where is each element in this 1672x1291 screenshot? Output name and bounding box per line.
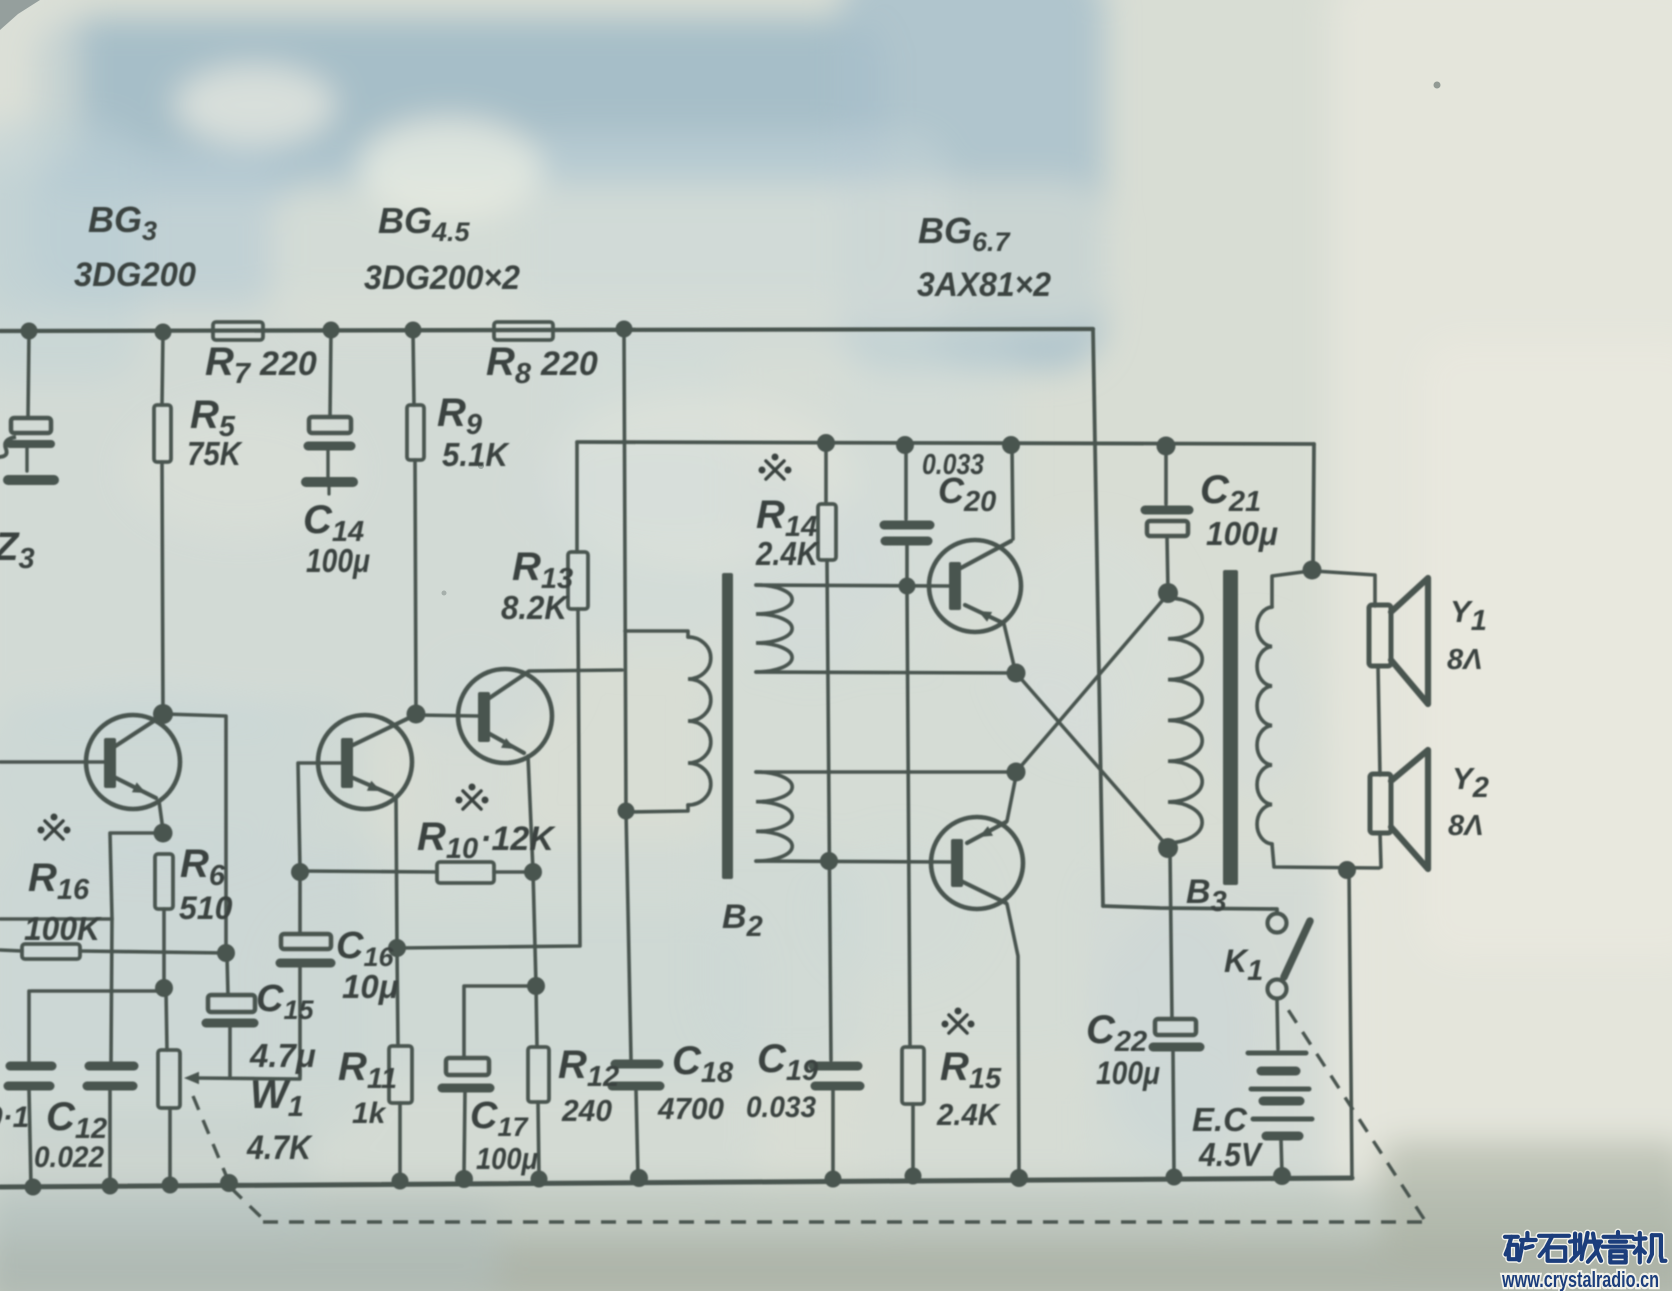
wire C13 bottom lead [29, 1090, 31, 1186]
node dot rail R11 [392, 1173, 409, 1190]
photo speck near BG4 [442, 591, 447, 596]
resistor R10 [437, 862, 494, 883]
svg-text:100μ: 100μ [1206, 515, 1278, 552]
svg-text:4.5V: 4.5V [1198, 1136, 1264, 1173]
svg-text:240: 240 [561, 1093, 612, 1128]
wire BG5 emitter line with arrow [488, 733, 524, 753]
switch K1 top contact [1268, 914, 1287, 933]
svg-text:8.2K: 8.2K [501, 589, 569, 626]
wire B2 lower winding bottom to BG7 base [756, 861, 951, 862]
capacitor C18 bottom plate [612, 1082, 660, 1091]
capacitor C13 top plate [10, 1062, 52, 1071]
speaker Y2 box [1370, 774, 1391, 833]
capacitor C16 top box plate [281, 934, 331, 949]
wire C20 bottom lead [905, 546, 909, 583]
svg-text:100μ: 100μ [476, 1141, 538, 1176]
wire BG3 emitter line with arrow [114, 777, 156, 798]
battery EC plate short 3 [1266, 1132, 1299, 1141]
wire top supply rail [0, 329, 1093, 331]
capacitor C19 bottom plate [815, 1082, 860, 1091]
select mark near R10 [457, 785, 487, 809]
svg-text:E.C: E.C [1192, 1101, 1248, 1138]
svg-text:0·1: 0·1 [0, 1101, 29, 1134]
node junction dot R13-R11-emitter node [388, 939, 406, 957]
node junction dot BG7 cross node [1007, 763, 1026, 782]
wire C22 top lead from B3 bottom node [1170, 851, 1172, 1019]
transistor BG3 3DG200 circle [86, 715, 180, 809]
emitter arrow of BG6 [978, 611, 992, 622]
dashed link up to switch K1 [1285, 1005, 1424, 1219]
ground bar below C14 [306, 477, 353, 487]
svg-text:3DG200×2: 3DG200×2 [364, 259, 520, 297]
wire BG6 emitter line with arrow [965, 605, 1003, 623]
resistor R16 [22, 944, 80, 959]
emitter arrow of BG3 [132, 782, 146, 793]
dashed link horizontal run [263, 1220, 1424, 1223]
wire BG5 base lead [416, 715, 478, 716]
wire R13 bottom lead down and left to BG4 emitter node [399, 609, 580, 948]
svg-text:0.022: 0.022 [34, 1141, 104, 1174]
battery EC plate long 1 [1248, 1051, 1306, 1056]
svg-text:2.4K: 2.4K [936, 1097, 1001, 1132]
node junction dot BG3 emitter [154, 824, 173, 843]
svg-text:4.7μ: 4.7μ [249, 1037, 316, 1074]
wire BG5 collector over to B2 line [529, 670, 622, 671]
wire cross diagonal from BG7 node to B3 top [1016, 594, 1168, 772]
capacitor C21 bottom box plate [1147, 521, 1188, 536]
svg-text:2.4K: 2.4K [755, 535, 820, 572]
wire C15 top lead [227, 955, 228, 995]
capacitor C17 top box plate [446, 1058, 489, 1075]
wire C14 top lead [330, 331, 331, 417]
svg-text:3DG200: 3DG200 [74, 256, 196, 294]
wiper arrow of potentiometer W1 [184, 1072, 199, 1085]
node junction dot on top rail at R5 [155, 324, 172, 341]
node dot rail C18 [630, 1169, 648, 1187]
node junction dot C20 at BG6 base wire [899, 578, 916, 595]
wire input return from left edge to C12 [0, 917, 112, 921]
photo speck top right [1434, 82, 1441, 89]
svg-text:5.1K: 5.1K [442, 436, 510, 473]
wire Z3 branch down from rail [28, 332, 29, 417]
wire R14 bottom lead down to BG7 base wire and C19 [827, 560, 831, 1060]
wire right side of top rail going down [1093, 329, 1103, 906]
resistor R8 on top rail [494, 322, 553, 340]
wire R16 left lead from edge [0, 950, 22, 951]
node junction dot rail2 at C21 [1157, 437, 1176, 456]
wire B3 secondary top lead [1272, 571, 1310, 607]
capacitor C17 bottom plate [442, 1084, 490, 1093]
wire bottom ground rail [0, 1178, 1352, 1187]
capacitor C21 top plate [1145, 506, 1189, 515]
node dot rail C19 [825, 1171, 842, 1188]
watermark logo kuangshi shouyinji [1505, 1232, 1665, 1262]
wire BG7 emitter line [959, 880, 1006, 903]
emitter arrow of BG5 [501, 738, 515, 749]
wire B2 primary feed line from rail down to C18 [624, 330, 631, 1059]
node junction dot BG6 emitter cross node [1007, 664, 1026, 683]
wire BG3 collector over to feedback line [165, 714, 226, 951]
wire BG6 emitter stub to node [1004, 624, 1015, 670]
battery EC plate long 3 [1253, 1117, 1312, 1122]
potentiometer W1 body [158, 1050, 180, 1108]
switch K1 bottom contact [1268, 980, 1287, 999]
node junction dot on top rail at R9 [405, 322, 422, 339]
wire C15 bottom lead joining wiper wire [228, 1027, 232, 1078]
wire down from BG6 base wire to R15 [907, 588, 910, 1046]
node dot rail W1 [162, 1177, 179, 1194]
resistor R11 [389, 1046, 412, 1103]
wire speaker return down to battery rail [1349, 871, 1352, 1177]
node dot rail BG7 emitter [1010, 1169, 1028, 1187]
dashed link from W1 wiper to rail [193, 1096, 228, 1180]
node dot rail R15 [905, 1168, 922, 1185]
node junction dot rail2 at R14 [817, 434, 835, 452]
transformer B3 secondary winding [1257, 607, 1272, 844]
node junction dot on top rail feeding B2 primary [616, 321, 633, 338]
wire second rail [577, 442, 1314, 444]
wire BG7 emitter down to ground rail [1007, 904, 1019, 1176]
capacitor C19 top plate [813, 1062, 858, 1071]
wire C12 top lead [111, 919, 112, 1062]
wire from rail corner to switch K1 [1103, 906, 1277, 913]
select mark near R14 [760, 455, 790, 479]
wire speaker Y1 top lead [1314, 571, 1375, 606]
wire B2 lower winding top to BG7 collector node [756, 770, 1014, 774]
wire R10 right lead [494, 870, 532, 874]
wire W1 wiper lead [196, 1070, 300, 1079]
capacitor C13 bottom plate [8, 1082, 50, 1091]
node junction dot speaker feed [1303, 561, 1322, 580]
wire R11 bottom lead [398, 1103, 402, 1180]
wire R16 right lead to feedback node [80, 951, 226, 953]
wire W1 bottom lead [168, 1108, 172, 1184]
resistor R9 [407, 405, 424, 460]
wire R5 bottom lead to BG3 collector node [162, 462, 163, 711]
svg-text:100K: 100K [24, 910, 102, 947]
resistor R7 on top rail [213, 322, 263, 340]
transformer B2 core [722, 573, 733, 879]
battery EC plate long 2 [1251, 1087, 1309, 1092]
resistor R5 [154, 405, 171, 462]
speaker Y1 box [1369, 605, 1391, 666]
capacitor C18 top plate [615, 1060, 659, 1069]
wire BG4 collector line to node [351, 716, 413, 746]
wire B2 upper winding bottom to BG6 emitter node [756, 672, 1014, 673]
wire C20 top lead [904, 446, 908, 519]
node dot rail C12 [102, 1178, 119, 1195]
node junction dot BG4-BG5 coupling [407, 705, 426, 724]
wire R9 top lead [413, 331, 414, 405]
wire C19 bottom lead [831, 1090, 835, 1178]
resistor R15 [902, 1047, 924, 1104]
wire BG5 emitter down through R10 and C17 nodes to R12 [528, 756, 537, 1046]
wire BG3 collector line [114, 717, 160, 747]
wire BG4 base lead and down to C16 node [298, 763, 341, 869]
wire R15 bottom lead [911, 1104, 915, 1174]
wire BG6 collector line [959, 541, 1011, 569]
svg-text:3AX81×2: 3AX81×2 [917, 266, 1051, 304]
transformer B2 secondary lower winding [756, 772, 792, 861]
select mark near R16 [39, 815, 69, 839]
svg-text:1k: 1k [352, 1097, 387, 1130]
node junction dot BG3 collector [153, 704, 173, 724]
wire R5 top lead [162, 333, 163, 405]
wire Z3 stub [25, 448, 28, 471]
svg-text:75K: 75K [187, 435, 243, 472]
wire C12 bottom lead [108, 1090, 112, 1185]
node dot rail C17 [455, 1170, 473, 1188]
capacitor Z3 lower solid plate [10, 440, 51, 448]
wire C21 top lead [1164, 447, 1168, 504]
collector-side arrow of BG7 [979, 826, 993, 837]
capacitor C16 bottom plate [280, 959, 331, 968]
capacitor C20 top plate [884, 521, 930, 530]
capacitor Z3 ceramic-filter top box plate [11, 418, 51, 433]
svg-text:8Λ: 8Λ [1447, 644, 1482, 676]
capacitor C14 positive box plate [309, 417, 351, 433]
svg-text:510: 510 [179, 890, 233, 926]
capacitor C12 bottom plate [87, 1082, 133, 1091]
transformer B2 secondary upper winding [756, 585, 792, 672]
capacitor C22 top box plate [1155, 1019, 1196, 1035]
wire C16 top lead [298, 874, 302, 934]
node dot rail battery [1273, 1167, 1291, 1185]
node junction dot on top rail at C14 [323, 322, 340, 339]
node dot rail C22 [1166, 1169, 1183, 1186]
transistor BG3 base bar [104, 738, 116, 788]
node junction dot rail2 at C20 [896, 436, 914, 454]
svg-text:100μ: 100μ [1096, 1055, 1160, 1091]
node junction dot on top rail at Z3 [21, 323, 38, 340]
wire BG3 emitter branch left [110, 833, 161, 918]
dashed link below rail [231, 1188, 263, 1219]
switch K1 lever [1284, 921, 1310, 977]
wire B3 secondary bottom lead [1272, 844, 1379, 868]
resistor R13 [568, 552, 588, 609]
wire Y2 bottom lead [1380, 833, 1381, 867]
wire C14 ground stub [326, 451, 329, 477]
wire BG3 emitter stub down [159, 801, 163, 830]
node junction dot speaker return [1338, 861, 1356, 879]
wire BG4 emitter line with arrow [351, 777, 392, 795]
wire B2 primary top terminal [625, 631, 688, 637]
wire R11 top lead [397, 948, 398, 1046]
transistor BG7 base bar [951, 839, 963, 887]
battery EC plate short 2 [1263, 1097, 1300, 1106]
wire B2 primary bottom terminal [626, 805, 688, 812]
node junction dot B3 primary bottom [1158, 838, 1178, 858]
resistor R6 [155, 854, 173, 909]
wire R14 top lead [824, 444, 828, 504]
wire R12 bottom lead [538, 1102, 539, 1177]
wire tiny stub below ground bar [327, 487, 330, 494]
capacitor C22 bottom plate [1153, 1043, 1200, 1052]
svg-text:100μ: 100μ [306, 542, 370, 579]
svg-text:8Λ: 8Λ [1448, 810, 1483, 842]
speaker Y2 horn [1391, 750, 1428, 869]
select mark near R15 [943, 1009, 973, 1033]
resistor R14 [818, 504, 836, 560]
capacitor C14 negative plate [308, 442, 351, 451]
transistor BG4 3DG200 circle [318, 715, 412, 809]
svg-text:R7220: R7220 [205, 340, 317, 390]
transistor BG5 base bar [478, 692, 490, 742]
svg-text:0.033: 0.033 [746, 1091, 816, 1124]
wire BG3 base lead from left edge [0, 760, 105, 764]
node junction dot R14 line at BG7 base wire [820, 852, 838, 870]
svg-text:10μ: 10μ [342, 968, 399, 1005]
wire from R6 node left to C13 [31, 989, 164, 993]
capacitor C15 bottom plate [206, 1019, 254, 1028]
wire C18 bottom lead [636, 1090, 638, 1177]
wire BG7 collector stub to node [1007, 776, 1016, 821]
node junction dot feedback line meets R16 [217, 944, 235, 962]
svg-text:R10·12K: R10·12K [417, 815, 556, 865]
svg-text:www.crystalradio.cn: www.crystalradio.cn [1501, 1267, 1659, 1291]
transistor BG4 base bar [341, 738, 353, 788]
wire rail2 right corner down to speakers [1313, 444, 1314, 568]
wire C13 top lead [27, 991, 31, 1062]
photo speck near C14 [478, 463, 484, 469]
wire C17 bottom lead [464, 1092, 465, 1174]
svg-text:R8220: R8220 [486, 340, 598, 390]
wire BG7 collector line with arrow [967, 822, 1006, 843]
transistor BG5 3DG200 circle [458, 669, 552, 763]
emitter arrow of BG4 [367, 781, 381, 791]
photo corner smudge top-left [0, 0, 40, 30]
capacitor C20 bottom plate [885, 537, 928, 546]
wire R10 left lead [300, 871, 437, 872]
wire R6 bottom lead [162, 909, 166, 987]
svg-text:4700: 4700 [657, 1091, 724, 1126]
wire between Y1 and Y2 [1378, 666, 1380, 775]
wire C21 bottom lead [1167, 536, 1168, 591]
wire battery bottom lead [1281, 1140, 1282, 1174]
resistor R12 [528, 1047, 549, 1102]
transistor BG7 3AX81 circle [931, 817, 1023, 909]
node junction dot rail2 at BG6 collector [1002, 436, 1020, 454]
node dot rail C13 [25, 1179, 42, 1196]
speaker Y1 horn [1391, 578, 1428, 704]
wire BG6 collector lead [1012, 446, 1013, 539]
node junction dot R10 right at BG5 emitter line [524, 863, 542, 881]
wire BG4 emitter down to R11 node [396, 798, 397, 946]
wire B2 upper winding top to BG6 base [756, 585, 949, 586]
wire W1 top lead [166, 991, 167, 1050]
wire C17 branch [464, 986, 534, 1058]
wire hook mark at left edge near Z3 [0, 437, 16, 457]
wire cross diagonal from BG6 node to B3 bottom [1016, 673, 1168, 847]
wire C16 bottom lead down to wiper wire [298, 968, 302, 1076]
ground bar of Z3 [8, 475, 54, 485]
capacitor C15 top box plate [208, 995, 255, 1012]
wire R9 bottom lead to BG4 collector node [415, 460, 416, 712]
node dot rail dashed-link crossing [220, 1174, 238, 1192]
svg-text:4.7K: 4.7K [246, 1129, 313, 1167]
node dot rail R12 [531, 1171, 548, 1188]
node junction dot C17 tap on emitter line [527, 977, 545, 995]
wire C22 bottom lead [1173, 1052, 1174, 1173]
capacitor C12 top plate [89, 1062, 134, 1071]
battery EC plate short 1 [1261, 1067, 1296, 1076]
node junction dot R6 bottom W1 top [155, 979, 173, 997]
wire BG5 collector line [488, 672, 528, 699]
node junction dot BG4 base bias node [291, 863, 309, 881]
transistor BG6 3AX81 circle [929, 540, 1021, 632]
transformer B3 primary winding [1168, 598, 1202, 843]
transformer B3 core [1223, 570, 1238, 885]
wire R13 feedback from rail2 [575, 443, 579, 552]
wire K1 to battery [1277, 999, 1278, 1049]
transistor BG6 base bar [949, 562, 961, 610]
node junction dot B2 primary bottom tap [618, 803, 635, 820]
node junction dot B3 primary top [1158, 583, 1178, 603]
transformer B2 primary winding [688, 637, 711, 805]
